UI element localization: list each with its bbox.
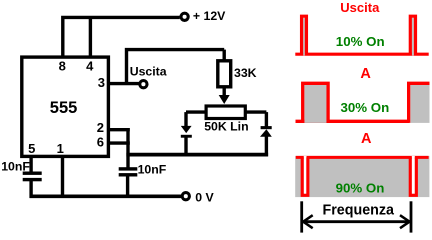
svg-text:10nF: 10nF: [1, 159, 30, 173]
svg-text:555: 555: [50, 99, 78, 117]
svg-text:5: 5: [28, 141, 35, 156]
svg-text:8: 8: [59, 59, 66, 74]
svg-text:Uscita: Uscita: [340, 0, 380, 15]
svg-text:50K Lin: 50K Lin: [204, 120, 248, 134]
svg-text:0 V: 0 V: [195, 190, 214, 204]
svg-text:Uscita: Uscita: [130, 65, 167, 79]
svg-text:+ 12V: + 12V: [193, 9, 226, 23]
svg-text:Frequenza: Frequenza: [323, 203, 396, 219]
svg-text:6: 6: [97, 135, 104, 150]
svg-text:3: 3: [98, 75, 105, 90]
svg-text:4: 4: [86, 59, 94, 74]
svg-text:33K: 33K: [234, 66, 257, 80]
svg-text:A: A: [361, 131, 372, 147]
svg-text:30% On: 30% On: [341, 100, 390, 115]
svg-text:10nF: 10nF: [138, 162, 167, 176]
svg-text:10% On: 10% On: [336, 34, 385, 49]
svg-text:A: A: [360, 66, 371, 82]
svg-text:2: 2: [97, 120, 104, 135]
svg-text:1: 1: [57, 141, 64, 156]
svg-text:90% On: 90% On: [336, 180, 385, 195]
